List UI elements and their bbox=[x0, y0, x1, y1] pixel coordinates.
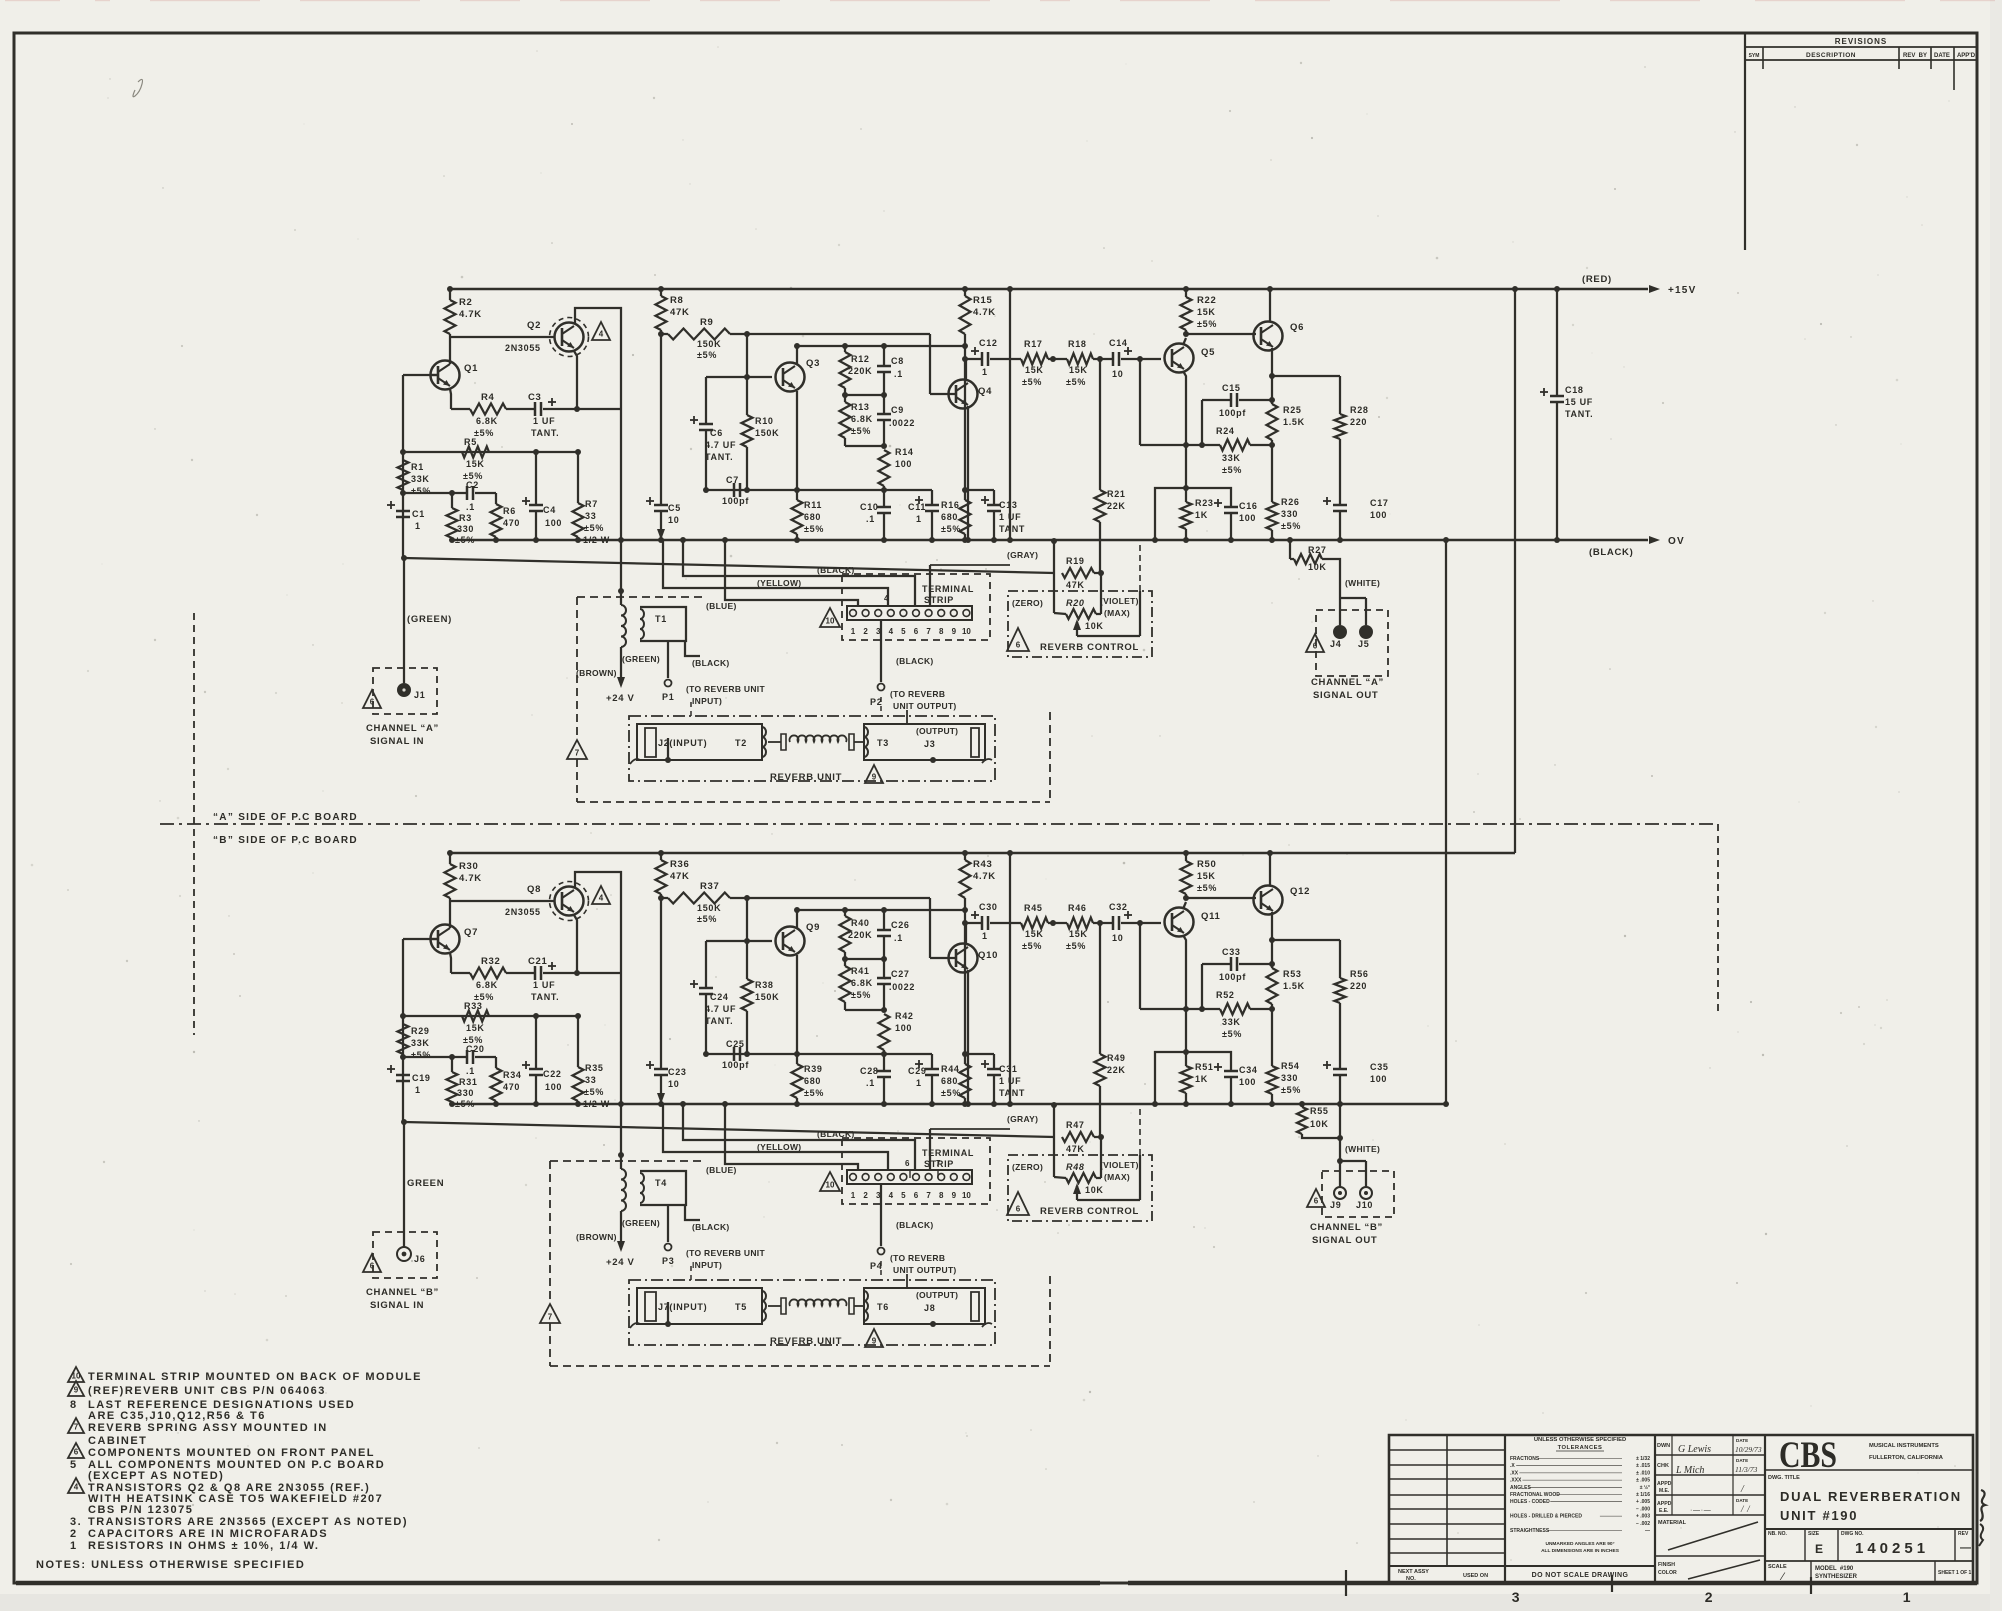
svg-text:(BLACK): (BLACK) bbox=[896, 1220, 934, 1230]
junction bbox=[1098, 570, 1104, 576]
svg-text:±5%: ±5% bbox=[941, 1088, 961, 1098]
svg-text:R2: R2 bbox=[459, 297, 473, 308]
svg-text:100pf: 100pf bbox=[1219, 408, 1246, 418]
note triangle 7 bbox=[68, 1418, 84, 1433]
svg-text:C35: C35 bbox=[1370, 1062, 1389, 1072]
svg-text:C8: C8 bbox=[891, 356, 904, 366]
svg-text:—: — bbox=[1960, 1542, 1972, 1554]
svg-text:C10: C10 bbox=[860, 502, 879, 512]
svg-text:10K: 10K bbox=[1085, 621, 1104, 631]
svg-text:R24: R24 bbox=[1216, 426, 1235, 436]
svg-text:1: 1 bbox=[982, 367, 988, 377]
junction bbox=[618, 537, 624, 543]
junction bbox=[533, 537, 539, 543]
svg-text:±5%: ±5% bbox=[1197, 883, 1217, 893]
svg-text:9: 9 bbox=[872, 1337, 877, 1346]
svg-text:DWG. TITLE: DWG. TITLE bbox=[1768, 1475, 1800, 1481]
dashed box terminal strip bbox=[842, 574, 990, 640]
junction bbox=[574, 970, 580, 976]
svg-text:150K: 150K bbox=[697, 339, 721, 349]
svg-text:DESCRIPTION: DESCRIPTION bbox=[1806, 52, 1856, 59]
junction bbox=[991, 537, 997, 543]
svg-text:·—·—: ·—·— bbox=[1690, 1507, 1711, 1514]
wire reverb input jack stub bbox=[667, 738, 669, 760]
wire output jacks feed bbox=[1340, 1160, 1366, 1162]
svg-text:C6: C6 bbox=[710, 428, 723, 438]
capacitor C24 4.7UF TANT bbox=[706, 940, 747, 942]
svg-text:C3: C3 bbox=[528, 392, 542, 403]
wire Q9 emitter column bbox=[796, 955, 798, 1054]
svg-text:R25: R25 bbox=[1283, 405, 1302, 415]
svg-text:NEXT ASSY: NEXT ASSY bbox=[1398, 1569, 1429, 1575]
note triangle 4 bbox=[592, 322, 610, 340]
svg-text:.1: .1 bbox=[866, 1078, 875, 1088]
svg-text:R55: R55 bbox=[1310, 1106, 1329, 1116]
svg-text:(WHITE): (WHITE) bbox=[1345, 578, 1380, 588]
svg-text:± .005: ± .005 bbox=[1636, 1478, 1650, 1484]
junction bbox=[881, 956, 887, 962]
svg-text:100: 100 bbox=[1370, 510, 1387, 520]
capacitor C33 100pf bbox=[1201, 964, 1203, 1009]
junction bbox=[842, 343, 848, 349]
svg-text:(BROWN): (BROWN) bbox=[576, 668, 617, 678]
wire R12/C8 bottom row bbox=[845, 394, 884, 396]
wire Q5 collector to Q6 base bbox=[1183, 338, 1186, 345]
junction bbox=[744, 331, 750, 337]
svg-text:CHANNEL “B”: CHANNEL “B” bbox=[366, 1287, 439, 1298]
svg-text:SIZE: SIZE bbox=[1808, 1531, 1820, 1537]
svg-text:C29: C29 bbox=[908, 1066, 927, 1076]
svg-text:220K: 220K bbox=[848, 930, 872, 940]
svg-text:(RED): (RED) bbox=[1582, 274, 1612, 285]
wire Q9 collector bbox=[796, 910, 798, 929]
wire Q4 base bbox=[929, 334, 931, 394]
svg-text:NOTES: UNLESS OTHERWISE SPECIF: NOTES: UNLESS OTHERWISE SPECIFIED bbox=[36, 1559, 305, 1571]
transistor Q3 bbox=[776, 363, 805, 392]
svg-text:INPUT): INPUT) bbox=[692, 696, 722, 706]
svg-text:C33: C33 bbox=[1222, 947, 1241, 957]
svg-text:“A” SIDE OF P.C BOARD: “A” SIDE OF P.C BOARD bbox=[213, 812, 358, 823]
junction bbox=[722, 537, 728, 543]
svg-text:C34: C34 bbox=[1239, 1065, 1258, 1075]
svg-text:C1: C1 bbox=[412, 509, 425, 519]
junction bbox=[1269, 937, 1275, 943]
svg-text:5: 5 bbox=[70, 1459, 78, 1471]
svg-text:TERMINAL: TERMINAL bbox=[922, 584, 974, 594]
svg-text:SIGNAL IN: SIGNAL IN bbox=[370, 1300, 424, 1311]
svg-text:HOLES - DRILLED & PIERCED: HOLES - DRILLED & PIERCED bbox=[1510, 1514, 1582, 1520]
wire Q3 emitter column bbox=[796, 391, 798, 490]
dash-dot box REVERB CONTROL bbox=[1008, 1155, 1152, 1221]
svg-text:TANT.: TANT. bbox=[705, 1016, 733, 1026]
svg-text:Q4: Q4 bbox=[978, 386, 992, 397]
capacitor C21 1UF TANT bbox=[506, 972, 535, 974]
wire gray to strip bbox=[930, 564, 1010, 566]
svg-text:4: 4 bbox=[74, 1483, 79, 1492]
wire Q6 emitter node bbox=[1271, 348, 1273, 376]
svg-text:APPD: APPD bbox=[1657, 1481, 1672, 1487]
dashed separator right leg bbox=[1717, 824, 1719, 1012]
svg-text:C2: C2 bbox=[466, 480, 479, 490]
reverb spring bbox=[768, 741, 781, 743]
svg-text:±5%: ±5% bbox=[1022, 377, 1042, 387]
junction bbox=[575, 1013, 581, 1019]
svg-text:10: 10 bbox=[826, 617, 835, 626]
svg-text:C24: C24 bbox=[710, 992, 729, 1002]
svg-text:C7: C7 bbox=[726, 475, 739, 485]
resistor R18 15K bbox=[1053, 358, 1067, 360]
svg-text:R21: R21 bbox=[1107, 489, 1126, 499]
svg-text:4.7K: 4.7K bbox=[973, 871, 996, 882]
resistor R47 47K bbox=[1062, 1132, 1094, 1142]
svg-text:TANT.: TANT. bbox=[705, 452, 733, 462]
svg-text:C4: C4 bbox=[543, 505, 556, 515]
resistor R21 22K bbox=[1099, 359, 1101, 490]
svg-text:±5%: ±5% bbox=[1281, 1085, 1301, 1095]
svg-text:C14: C14 bbox=[1109, 338, 1128, 348]
svg-text:R45: R45 bbox=[1024, 903, 1043, 913]
svg-text:R1: R1 bbox=[411, 462, 424, 472]
resistor R5 15K bbox=[462, 447, 489, 458]
junction bbox=[881, 487, 887, 493]
svg-text:100: 100 bbox=[1370, 1074, 1387, 1084]
resistor R49 22K bbox=[1099, 923, 1101, 1054]
svg-text:R40: R40 bbox=[851, 918, 870, 928]
junction bbox=[1269, 442, 1275, 448]
svg-text:1/2 W: 1/2 W bbox=[583, 1099, 610, 1109]
svg-text:7: 7 bbox=[74, 1423, 79, 1432]
capacitor C20 .1 bbox=[403, 1056, 467, 1058]
resistor R16 680 column bbox=[964, 359, 966, 500]
transistor Q1 bbox=[431, 361, 460, 390]
junction bbox=[794, 537, 800, 543]
junction bbox=[400, 1054, 406, 1060]
red scanner marks top edge bbox=[5, 0, 60, 1]
wire collector feedback row bbox=[797, 345, 965, 347]
junction bbox=[962, 850, 968, 856]
svg-text:680: 680 bbox=[804, 1076, 821, 1086]
svg-text:CABINET: CABINET bbox=[88, 1435, 147, 1447]
svg-text:1/2 W: 1/2 W bbox=[583, 535, 610, 545]
svg-text:SIGNAL IN: SIGNAL IN bbox=[370, 736, 424, 747]
junction bbox=[658, 286, 664, 292]
svg-text:RESISTORS IN OHMS ± 10%, 1/4 W: RESISTORS IN OHMS ± 10%, 1/4 W. bbox=[88, 1540, 319, 1552]
junction bbox=[962, 356, 968, 362]
svg-text:.XXX: .XXX bbox=[1510, 1478, 1522, 1484]
svg-text:R35: R35 bbox=[585, 1063, 604, 1073]
svg-text:±5%: ±5% bbox=[941, 524, 961, 534]
junction bbox=[1183, 850, 1189, 856]
svg-text:E: E bbox=[1815, 1542, 1824, 1556]
capacitor C30 1 bbox=[965, 922, 982, 924]
capacitor C23 10 bbox=[654, 1068, 668, 1071]
svg-text:G Lewis: G Lewis bbox=[1678, 1444, 1711, 1455]
svg-text:2N3055: 2N3055 bbox=[505, 907, 541, 917]
wire 0V rail channel A bbox=[452, 539, 1648, 541]
svg-text:6: 6 bbox=[1314, 1197, 1319, 1206]
svg-text:Q11: Q11 bbox=[1201, 911, 1221, 922]
wire Q1 emitter bbox=[450, 389, 451, 409]
svg-text:MODEL #190: MODEL #190 bbox=[1815, 1566, 1854, 1572]
svg-text:7: 7 bbox=[575, 749, 580, 758]
wire Q7 base lead bbox=[403, 938, 438, 940]
capacitor C16 100 bbox=[1155, 488, 1231, 540]
dwg title box bbox=[1765, 1469, 1973, 1471]
junction bbox=[1269, 961, 1275, 967]
svg-text:R50: R50 bbox=[1197, 859, 1217, 870]
svg-text:Q2: Q2 bbox=[527, 320, 541, 331]
svg-text:FULLERTON, CALIFORNIA: FULLERTON, CALIFORNIA bbox=[1869, 1455, 1944, 1461]
jack J10 bbox=[1360, 1187, 1372, 1199]
svg-text:33: 33 bbox=[585, 1075, 596, 1085]
svg-text:SYM: SYM bbox=[1749, 53, 1760, 59]
terminal P4 bbox=[878, 1248, 885, 1255]
svg-text:10: 10 bbox=[668, 1079, 679, 1089]
wire Q7 emitter bbox=[450, 953, 451, 973]
junction bbox=[658, 895, 664, 901]
svg-text:C12: C12 bbox=[979, 338, 998, 348]
resistor R13 6.8K bbox=[844, 395, 846, 402]
svg-text:R38: R38 bbox=[755, 980, 774, 990]
svg-text:15K: 15K bbox=[1069, 365, 1088, 375]
svg-text:R26: R26 bbox=[1281, 497, 1300, 507]
svg-text:FINISH: FINISH bbox=[1658, 1562, 1675, 1568]
svg-text:220: 220 bbox=[1350, 417, 1367, 427]
junction bbox=[794, 1101, 800, 1107]
svg-text:2: 2 bbox=[1705, 1589, 1714, 1605]
svg-text:R12: R12 bbox=[851, 354, 870, 364]
svg-text:REVERB UNIT: REVERB UNIT bbox=[770, 1336, 842, 1347]
svg-text:4.7 UF: 4.7 UF bbox=[705, 1004, 736, 1014]
svg-text:C31: C31 bbox=[999, 1064, 1018, 1074]
svg-text:J8: J8 bbox=[924, 1303, 935, 1313]
svg-text:Q9: Q9 bbox=[806, 922, 820, 933]
svg-text:TANT.: TANT. bbox=[531, 992, 559, 1002]
svg-text:UNIT OUTPUT): UNIT OUTPUT) bbox=[893, 701, 957, 711]
svg-text:6: 6 bbox=[1016, 1205, 1021, 1214]
wire (BLACK) bundle bbox=[683, 1104, 915, 1170]
svg-text:—: — bbox=[1645, 1528, 1650, 1534]
wire Q5 emitter column bbox=[1183, 371, 1186, 502]
junction bbox=[1228, 537, 1234, 543]
resistor R39 680 bbox=[796, 1054, 798, 1064]
junction bbox=[400, 490, 406, 496]
svg-text:(TO REVERB UNIT: (TO REVERB UNIT bbox=[686, 1248, 765, 1258]
svg-text:100: 100 bbox=[1239, 513, 1256, 523]
junction bbox=[1050, 356, 1056, 362]
transistor Q5 bbox=[1165, 344, 1194, 373]
transistor Q10 bbox=[949, 944, 978, 973]
svg-text:6: 6 bbox=[370, 1262, 375, 1271]
junction bbox=[1183, 1049, 1189, 1055]
junction bbox=[881, 343, 887, 349]
svg-text:6: 6 bbox=[914, 627, 919, 636]
junction bbox=[400, 449, 406, 455]
resistor R46 15K bbox=[1053, 922, 1067, 924]
junction bbox=[1337, 1101, 1343, 1107]
svg-text:R54: R54 bbox=[1281, 1061, 1300, 1071]
svg-text:CHK: CHK bbox=[1657, 1463, 1669, 1469]
svg-text:7: 7 bbox=[936, 1159, 941, 1168]
junction bbox=[449, 490, 455, 496]
svg-text:T3: T3 bbox=[877, 738, 889, 748]
svg-text:100: 100 bbox=[545, 518, 562, 528]
svg-text:COMPONENTS MOUNTED ON FRONT PA: COMPONENTS MOUNTED ON FRONT PANEL bbox=[88, 1447, 375, 1459]
svg-text:1 UF: 1 UF bbox=[533, 416, 555, 426]
svg-text:15K: 15K bbox=[1025, 365, 1044, 375]
svg-text:R13: R13 bbox=[851, 402, 870, 412]
capacitor C34 100 bbox=[1155, 1052, 1231, 1104]
next-assy table bbox=[1504, 1435, 1506, 1583]
junction bbox=[1152, 537, 1158, 543]
svg-text:470: 470 bbox=[503, 1082, 520, 1092]
svg-text:C9: C9 bbox=[891, 405, 904, 415]
svg-text:1: 1 bbox=[982, 931, 988, 941]
resistor R34 470 bbox=[495, 1057, 497, 1068]
svg-text:FRACTIONS: FRACTIONS bbox=[1510, 1456, 1540, 1462]
dash-dot box REVERB UNIT bbox=[629, 1280, 995, 1345]
svg-text:±5%: ±5% bbox=[584, 523, 604, 533]
transistor Q4 bbox=[949, 380, 978, 409]
resistor R45 15K bbox=[1021, 918, 1048, 929]
wire T4 secondary to P3 bbox=[667, 1205, 669, 1242]
junction bbox=[929, 1101, 935, 1107]
svg-text:TANT.: TANT. bbox=[1565, 409, 1593, 419]
junction bbox=[794, 343, 800, 349]
svg-text:DWG NO.: DWG NO. bbox=[1841, 1531, 1864, 1537]
svg-text:6: 6 bbox=[914, 1191, 919, 1200]
junction bbox=[1269, 397, 1275, 403]
svg-text:15K: 15K bbox=[1025, 929, 1044, 939]
svg-text:+24 V: +24 V bbox=[606, 693, 635, 704]
junction bbox=[533, 1013, 539, 1019]
svg-text:1: 1 bbox=[415, 521, 421, 531]
junction bbox=[842, 956, 848, 962]
svg-text:1: 1 bbox=[70, 1540, 78, 1552]
resistor R53 1.5K bbox=[1271, 940, 1273, 968]
svg-text:(ZERO): (ZERO) bbox=[1012, 598, 1043, 608]
dashed box input jack bbox=[373, 1232, 437, 1278]
svg-text:22K: 22K bbox=[1107, 501, 1126, 511]
wire collector feedback row bbox=[797, 909, 965, 911]
svg-text:6: 6 bbox=[370, 698, 375, 707]
wire Q1 collector to Q2 base bbox=[450, 336, 554, 338]
svg-text:TANT.: TANT. bbox=[531, 428, 559, 438]
dash-dot box REVERB CONTROL bbox=[1008, 591, 1152, 657]
svg-text:330: 330 bbox=[1281, 1073, 1298, 1083]
svg-text:± .015: ± .015 bbox=[1636, 1463, 1650, 1469]
svg-text:1: 1 bbox=[916, 1078, 922, 1088]
svg-text:4: 4 bbox=[599, 894, 604, 903]
junction bbox=[881, 537, 887, 543]
transformer T4 secondary bbox=[640, 1171, 686, 1205]
svg-text:±5%: ±5% bbox=[1281, 521, 1301, 531]
svg-text:T6: T6 bbox=[877, 1302, 889, 1312]
wire +15V rail channel A bbox=[448, 288, 1648, 290]
junction bbox=[665, 1321, 671, 1327]
svg-text:SHEET 1 OF 1: SHEET 1 OF 1 bbox=[1938, 1570, 1972, 1576]
junction bbox=[449, 1054, 455, 1060]
junction bbox=[881, 392, 887, 398]
svg-text:J3: J3 bbox=[924, 739, 935, 749]
svg-text:Q1: Q1 bbox=[464, 363, 478, 374]
svg-text:STRAIGHTNESS: STRAIGHTNESS bbox=[1510, 1528, 1550, 1534]
capacitor C5 10 bbox=[654, 504, 668, 507]
svg-text:1: 1 bbox=[415, 1085, 421, 1095]
junction bbox=[618, 1152, 624, 1158]
junction bbox=[794, 1051, 800, 1057]
resistor R25 1.5K bbox=[1271, 376, 1273, 404]
note triangle 9 bbox=[68, 1381, 84, 1396]
note triangle 10 bbox=[68, 1367, 84, 1382]
svg-text:R19: R19 bbox=[1066, 556, 1085, 566]
svg-text:10: 10 bbox=[72, 1372, 81, 1381]
svg-text:1.5K: 1.5K bbox=[1283, 417, 1305, 427]
junction bbox=[1097, 356, 1103, 362]
wire strip to P2 bbox=[880, 620, 882, 682]
svg-text:4.7K: 4.7K bbox=[973, 307, 996, 318]
junction bbox=[744, 487, 750, 493]
svg-text:9: 9 bbox=[952, 627, 957, 636]
svg-text:Q7: Q7 bbox=[464, 927, 478, 938]
capacitor C35 100 bbox=[1333, 1068, 1347, 1071]
note triangle 4 bbox=[68, 1478, 84, 1493]
svg-text:±5%: ±5% bbox=[455, 1099, 475, 1109]
wire Q10 base bbox=[929, 898, 931, 958]
wire Q12 emitter node bbox=[1271, 912, 1273, 940]
svg-text:GREEN: GREEN bbox=[407, 1178, 444, 1189]
junction bbox=[962, 286, 968, 292]
svg-text:5: 5 bbox=[901, 627, 906, 636]
wire Q2 emitter bbox=[574, 351, 577, 409]
svg-text:2: 2 bbox=[863, 627, 868, 636]
svg-text:± ½°: ± ½° bbox=[1640, 1484, 1650, 1491]
svg-text:15K: 15K bbox=[466, 459, 485, 469]
svg-text:/: / bbox=[1740, 1484, 1745, 1495]
junction bbox=[881, 443, 887, 449]
junction bbox=[1137, 920, 1143, 926]
resistor R28 220 bbox=[1339, 376, 1341, 414]
svg-text:R29: R29 bbox=[411, 1026, 430, 1036]
wire C7 row bbox=[706, 1053, 932, 1055]
capacitor C19 1 bbox=[396, 1074, 410, 1077]
svg-text:J9: J9 bbox=[1330, 1200, 1341, 1210]
junction bbox=[881, 1051, 887, 1057]
junction bbox=[1199, 442, 1205, 448]
svg-text:C27: C27 bbox=[891, 969, 910, 979]
resistor R4 6.8K bbox=[451, 408, 470, 410]
svg-text:R43: R43 bbox=[973, 859, 993, 870]
capacitor C6 4.7UF TANT bbox=[706, 376, 747, 378]
svg-text:R10: R10 bbox=[755, 416, 774, 426]
svg-text:15K: 15K bbox=[1197, 871, 1216, 881]
zone tick 1612 bbox=[1611, 1575, 1613, 1592]
svg-text:Q12: Q12 bbox=[1290, 886, 1310, 897]
svg-text:R27: R27 bbox=[1308, 545, 1327, 555]
wire (BLUE) bundle bbox=[725, 540, 858, 606]
svg-text:DATE: DATE bbox=[1736, 1498, 1748, 1503]
wire base bias row bbox=[403, 451, 578, 453]
svg-text:± 1/32: ± 1/32 bbox=[1636, 1456, 1650, 1462]
svg-text:(GREEN): (GREEN) bbox=[622, 654, 660, 664]
svg-text:T1: T1 bbox=[655, 614, 667, 624]
wire +15V rail channel B bbox=[448, 852, 1515, 854]
svg-text:100pf: 100pf bbox=[722, 496, 749, 506]
capacitor C10 .1 bbox=[883, 505, 885, 507]
svg-text:J5: J5 bbox=[1358, 639, 1369, 649]
transistor Q2 2N3055 bbox=[555, 323, 584, 352]
svg-text:R51: R51 bbox=[1195, 1062, 1214, 1072]
